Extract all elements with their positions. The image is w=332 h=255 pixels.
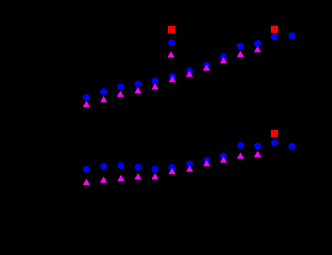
bottom circle col5 (152, 166, 159, 173)
top triangle col8 (203, 64, 210, 70)
bottom triangle col8 (203, 160, 210, 166)
bottom triangle col3 (117, 175, 124, 181)
bottom circle col11 (254, 143, 261, 150)
bottom circle col4 (135, 164, 142, 171)
top circle col2 (100, 88, 107, 95)
top square col12 (271, 26, 278, 33)
top triangle col6 lower (169, 76, 176, 82)
top circle col8 (203, 62, 210, 69)
top triangle col9 (220, 57, 227, 63)
top circle col10 (237, 43, 244, 50)
bottom triangle col11 (254, 151, 261, 157)
bottom triangle col1 (83, 179, 90, 185)
top triangle col10 (237, 51, 244, 57)
top triangle col6 upper (167, 51, 174, 57)
top circle col9 (220, 54, 227, 61)
top circle col6 lower (169, 73, 176, 80)
top triangle col5 (151, 83, 158, 89)
bottom circle col1 (83, 166, 90, 173)
top circle col6 upper (168, 39, 175, 46)
top triangle col1 (83, 101, 90, 107)
top circle col5 (152, 78, 159, 85)
bottom square col12 (271, 130, 278, 137)
top triangle col2 (100, 96, 107, 102)
top square col6 (168, 26, 175, 33)
bottom triangle col5 (151, 173, 158, 179)
top circle col4 (135, 81, 142, 88)
top triangle col3 (117, 91, 124, 97)
bottom circle col10 (237, 142, 244, 149)
bottom triangle col4 (134, 173, 141, 179)
top circle col7 (186, 68, 193, 75)
bottom circle col8 (203, 157, 210, 164)
bottom circle col6 (169, 164, 176, 171)
top circle col12 (271, 34, 278, 41)
bottom circle col3 (118, 162, 125, 169)
bottom circle col13 (289, 143, 296, 150)
bottom triangle col9 (220, 156, 227, 162)
top circle col11 (254, 40, 261, 47)
bottom triangle col2 (100, 177, 107, 183)
top circle col1 (83, 94, 90, 101)
top circle col3 (117, 83, 124, 90)
top triangle col4 (134, 87, 141, 93)
top circle col13 (289, 32, 296, 39)
bottom triangle col7 (186, 166, 193, 172)
bottom circle col12 (271, 140, 278, 147)
bottom triangle col6 (168, 168, 175, 174)
top triangle col7 (186, 71, 193, 77)
top triangle col11 (254, 46, 261, 52)
bottom circle col2 (100, 163, 107, 170)
bottom circle col9 (220, 153, 227, 160)
bottom circle col7 (186, 161, 193, 168)
bottom triangle col10 (237, 153, 244, 159)
